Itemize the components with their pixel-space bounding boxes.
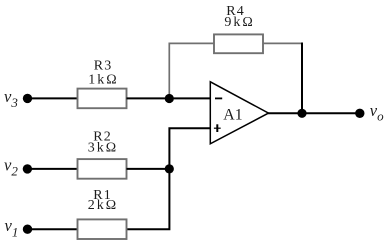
resistor R4 — [214, 34, 263, 53]
wire R4 corner down to output node (black) — [301, 43, 303, 114]
wire v2 to R2 — [27, 168, 77, 170]
wire noninverting input bend down to R1 row and back to R1 — [127, 128, 211, 229]
op-amp minus pin mark — [215, 97, 222, 99]
svg-text:2kΩ: 2kΩ — [88, 198, 118, 213]
wire R2 to junction — [127, 168, 170, 170]
node R2 output junction — [165, 164, 174, 173]
svg-text:1kΩ: 1kΩ — [88, 72, 118, 87]
wire R3 to op-amp inverting input — [127, 97, 211, 99]
op-amp A1 triangle — [210, 82, 268, 144]
svg-text:9kΩ: 9kΩ — [224, 15, 254, 30]
wire op-amp output to vo — [268, 112, 360, 114]
wire v3 to R3 — [28, 97, 78, 99]
node v2 terminal — [23, 164, 32, 173]
resistor R2 — [78, 159, 127, 179]
node R3 output junction — [165, 94, 174, 103]
node output junction — [297, 109, 306, 118]
svg-text:A1: A1 — [223, 107, 242, 124]
resistor R3 — [78, 89, 127, 109]
wire v1 to R1 — [28, 228, 78, 230]
svg-text:3kΩ: 3kΩ — [88, 140, 118, 155]
wire feedback loop left/top (grey) — [169, 43, 214, 98]
resistor R1 — [78, 219, 127, 239]
node vo terminal — [355, 109, 364, 118]
node v1 terminal — [23, 225, 32, 234]
wire R4 right to corner (grey) — [263, 42, 303, 44]
node v3 terminal — [23, 94, 32, 103]
op-amp plus pin mark — [214, 127, 221, 129]
